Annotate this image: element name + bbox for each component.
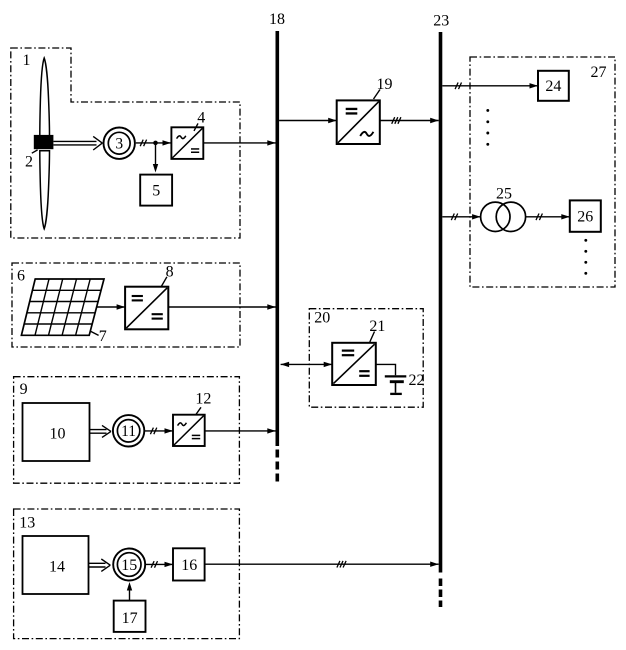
svg-text:22: 22: [409, 372, 425, 389]
svg-text:1: 1: [23, 52, 31, 69]
svg-text:9: 9: [20, 381, 28, 398]
svg-text:15: 15: [121, 557, 137, 574]
svg-text:18: 18: [269, 11, 285, 28]
svg-text:12: 12: [195, 391, 211, 408]
svg-text:17: 17: [122, 610, 138, 627]
svg-text:3: 3: [115, 136, 123, 153]
svg-text:7: 7: [99, 328, 107, 345]
svg-text:27: 27: [591, 64, 607, 81]
svg-text:5: 5: [152, 183, 160, 200]
svg-text:16: 16: [181, 557, 197, 574]
svg-text:13: 13: [19, 515, 35, 532]
svg-text:25: 25: [496, 186, 512, 203]
svg-text:20: 20: [314, 310, 330, 327]
svg-text:11: 11: [121, 423, 136, 440]
svg-text:4: 4: [197, 109, 205, 126]
svg-text:24: 24: [545, 78, 561, 95]
svg-text:2: 2: [25, 154, 33, 171]
svg-text:19: 19: [377, 76, 393, 93]
svg-text:10: 10: [50, 426, 66, 443]
svg-text:8: 8: [166, 264, 174, 281]
svg-text:6: 6: [17, 267, 25, 284]
svg-text:26: 26: [577, 209, 593, 226]
svg-text:21: 21: [369, 318, 385, 335]
svg-text:14: 14: [49, 559, 65, 576]
svg-text:23: 23: [433, 13, 449, 30]
